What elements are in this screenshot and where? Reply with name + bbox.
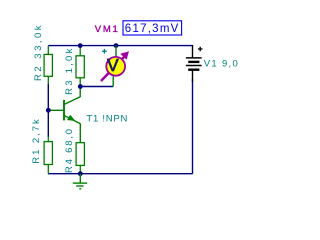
- ground: [73, 174, 87, 189]
- node dot R3 top: [78, 43, 83, 48]
- wire battery bottom drop: [192, 79, 194, 174]
- svg-text:VM1: VM1: [95, 24, 120, 35]
- resistor R4: [76, 143, 84, 174]
- node dot ground: [78, 171, 83, 176]
- wire left drop R2 to R1: [47, 84, 49, 137]
- svg-text:V1 9,0: V1 9,0: [204, 58, 239, 69]
- voltmeter VM1 lead top: [115, 46, 117, 57]
- voltmeter VM1 needle shaft: [101, 56, 125, 81]
- svg-text:R3 1,0k: R3 1,0k: [64, 46, 75, 95]
- svg-text:T1 !NPN: T1 !NPN: [86, 114, 128, 125]
- resistor R3: [76, 46, 84, 87]
- resistor R1: [44, 137, 52, 174]
- voltmeter VM1 lead bottom: [112, 77, 114, 87]
- node dot base: [46, 108, 51, 113]
- battery V1 bottom lead: [192, 71, 194, 82]
- node dot voltmeter top: [114, 43, 119, 48]
- transistor T1 emitter arrow: [67, 115, 75, 121]
- resistor R2: [44, 46, 52, 85]
- battery V1 plates: [186, 58, 202, 70]
- battery V1 top lead: [192, 45, 194, 57]
- voltmeter VM1 body: [106, 57, 125, 76]
- svg-text:R4 68,0: R4 68,0: [64, 127, 75, 173]
- wire collector node to voltmeter: [80, 86, 113, 88]
- svg-text:R1 2,7k: R1 2,7k: [31, 117, 42, 163]
- voltmeter VM1 plus mark: [102, 49, 107, 54]
- svg-text:V: V: [107, 55, 119, 75]
- svg-text:617,3mV: 617,3mV: [125, 23, 180, 35]
- wire bottom rail: [48, 173, 193, 175]
- node dot collector: [78, 84, 83, 89]
- svg-text:R2 33,0k: R2 33,0k: [33, 23, 44, 81]
- battery V1 plus mark: [198, 47, 203, 52]
- transistor T1: [49, 87, 80, 144]
- voltmeter readout box: [123, 21, 182, 35]
- voltmeter VM1 needle head: [120, 51, 129, 60]
- wire top rail: [48, 45, 192, 47]
